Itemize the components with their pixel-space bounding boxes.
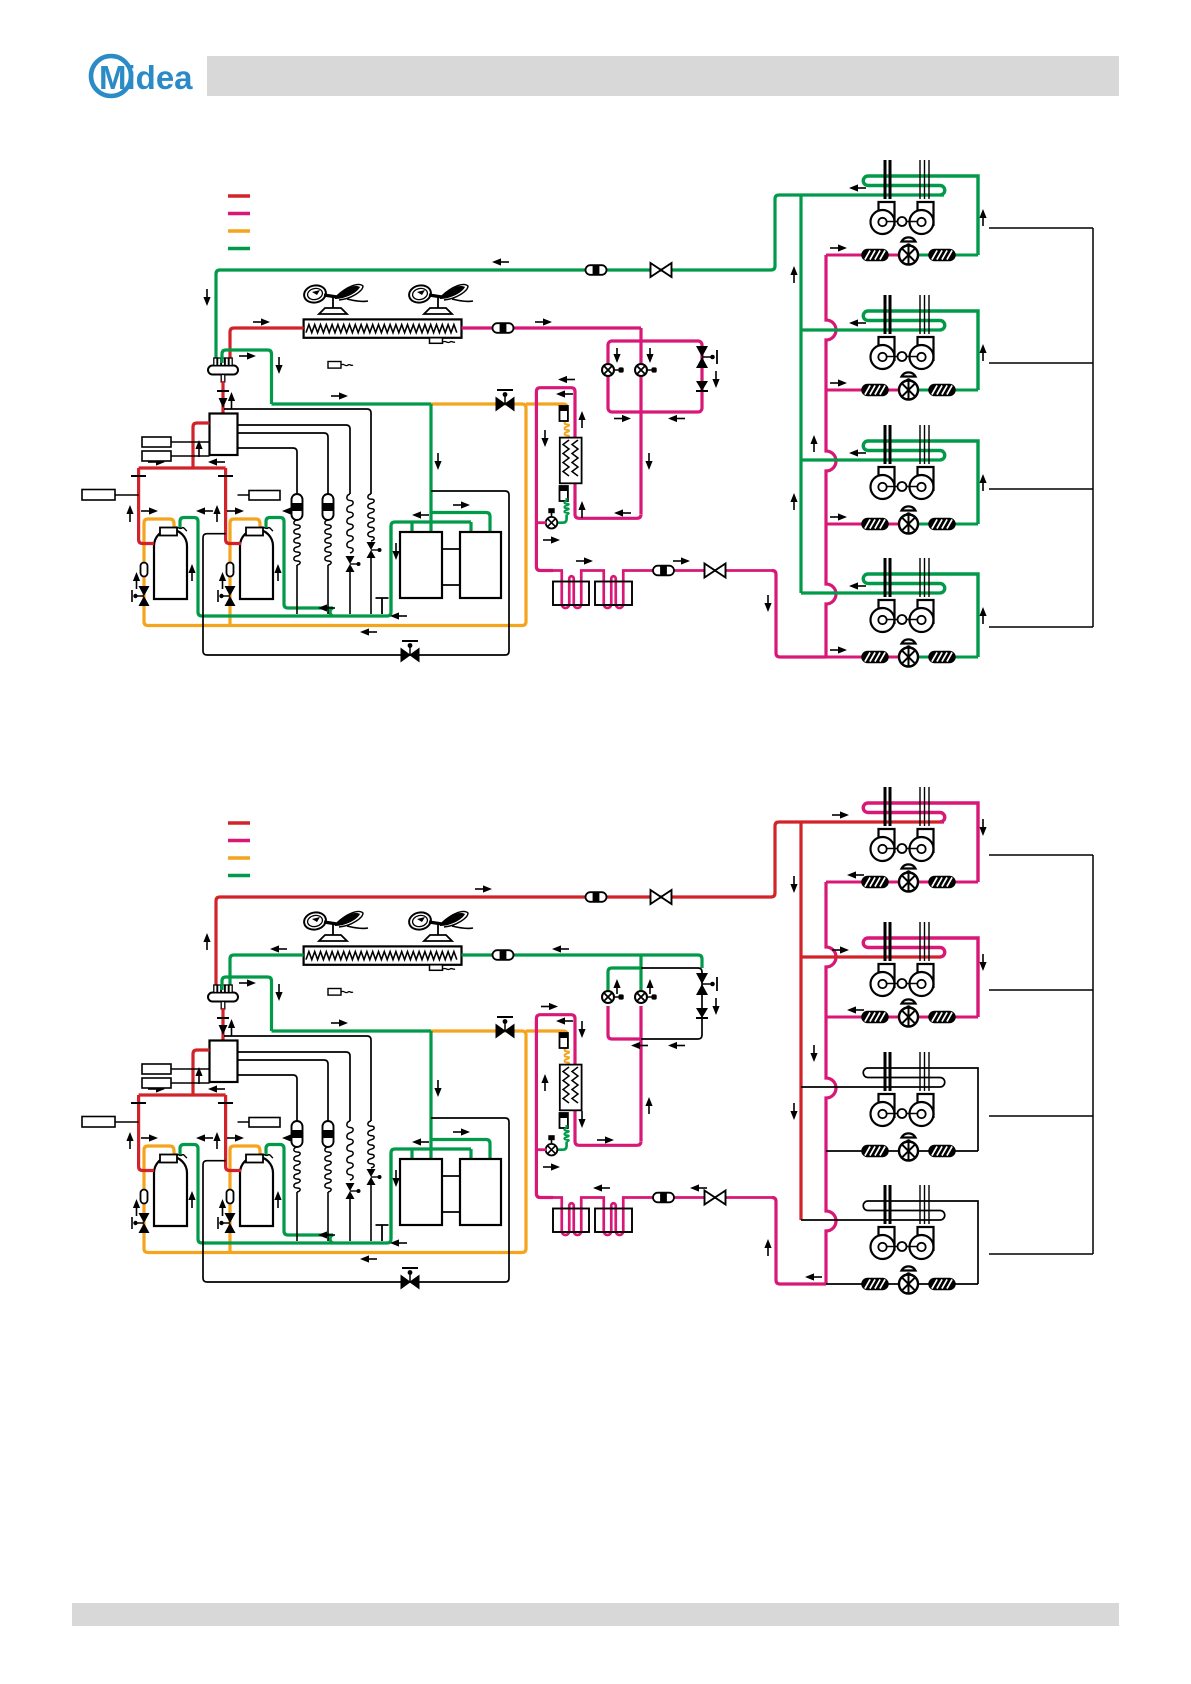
arrow header right (heating) (148, 1085, 165, 1092)
arrow coil left (cooling) (253, 318, 270, 325)
arrow subcool hat 2 (heating) (556, 1017, 573, 1024)
indoor unit 2 fan right (cooling) (910, 337, 934, 369)
four-way label box A (cooling) (142, 437, 210, 447)
footer gray bar (72, 1603, 1119, 1626)
arrow gas main (heating) (475, 885, 492, 892)
pipe: suction header green (heating) (272, 1029, 432, 1032)
legend line 1 (heating) (228, 821, 250, 825)
oil separator x328 (cooling) (323, 494, 334, 520)
arrow discharge 1 (cooling) (126, 505, 133, 522)
arrow subcool EXV out (heating) (543, 1163, 560, 1170)
pipe: outdoor coil right line (cooling) (462, 326, 642, 329)
unit 2 label bracket (heating) (989, 989, 1093, 991)
pipe: HX port 431 (heating) (429, 1149, 432, 1159)
oil separator x297 (heating) (292, 1121, 303, 1147)
pipe: orange header (cooling) (144, 404, 526, 626)
pipe: separator to four-way valve (cooling) (221, 381, 224, 414)
oil return valve bottom (cooling) (401, 641, 419, 662)
indoor unit 2 fan shaft (cooling) (886, 352, 917, 361)
orange capillary (heating) (565, 1048, 570, 1065)
oil separator drop x297 (cooling) (296, 565, 298, 614)
four-way port line 4 (cooling) (238, 448, 298, 494)
unit 2 strainer left (cooling) (862, 385, 888, 396)
unit 2 strainer left (heating) (862, 1012, 888, 1023)
outdoor EXV 2 (heating) (635, 991, 657, 1003)
indoor unit 1 fan right (cooling) (910, 202, 934, 234)
arrow liquid main 2 (cooling) (673, 557, 690, 564)
oil separator capillary x328 (heating) (325, 1147, 331, 1192)
liquid service valve (heating) (705, 1191, 726, 1205)
unit 1 strainer right (cooling) (929, 250, 955, 261)
pipe: orange branch compressor 2 (cooling) (230, 519, 260, 626)
arrow unit 2 gas branch (heating) (832, 946, 849, 953)
unit 4 EXV (heating) (899, 1266, 918, 1293)
arrow EXV2 (cooling) (646, 348, 653, 363)
arrow suction header (cooling) (331, 392, 348, 399)
arrow unit 3 riser side (cooling) (979, 474, 986, 491)
indoor unit 2 pipe set B (heating) (920, 922, 929, 961)
arrow suction bottom 2 (heating) (390, 1239, 407, 1246)
pipe: EXV left lower (heating) (608, 1006, 641, 1039)
subcooler HX (cooling) (560, 438, 582, 484)
sensor tag (cooling) (328, 362, 353, 369)
unit 3 strainer left (cooling) (862, 519, 888, 530)
arrow liquid feed (heating) (764, 1239, 771, 1256)
arrow suction bottom 2 (cooling) (390, 612, 407, 619)
pipe: orange subcooler branch (cooling) (526, 404, 567, 421)
arrow unit 2 liquid (heating) (847, 1006, 864, 1013)
temp sensor T (cooling) (376, 598, 389, 614)
pipe: subcooler lower leg (cooling) (575, 483, 641, 518)
unit 1 EXV (heating) (899, 864, 918, 891)
indoor unit 4 pipe set B (cooling) (920, 558, 929, 597)
indoor unit 2 pipe set A (cooling) (885, 295, 890, 334)
indoor unit 2 fan left (heating) (871, 964, 895, 996)
pipe: indoor unit 3 gas branch (cooling) (801, 458, 940, 461)
pipe: subcooler green out (heating) (565, 1125, 567, 1128)
arrow separator elbow (heating) (239, 979, 256, 986)
indoor unit 4 fan left (cooling) (871, 600, 895, 632)
pipe: discharge header (heating) (139, 1093, 226, 1096)
pipe: indoor unit 3 coil (cooling) (863, 441, 978, 524)
HX frame (heating) (203, 1118, 509, 1282)
arrow suction out 2 (cooling) (282, 507, 299, 514)
arrow oil riser 2 (cooling) (219, 572, 226, 589)
pipe: unit 3 liquid right (cooling) (918, 523, 978, 526)
pipe: gas riser (heating) (799, 822, 802, 1220)
indoor unit 1 pipe set A (heating) (885, 787, 890, 826)
suction drop x350 (cooling) (349, 572, 351, 614)
pipe: gas main line (cooling) (216, 195, 944, 361)
pipe: separator elbow (heating) (222, 977, 272, 1031)
suction spring x350 (heating) (347, 1121, 353, 1180)
outdoor EXV 1 (heating) (602, 991, 624, 1003)
indoor unit 2 fan shaft (heating) (886, 979, 917, 988)
indoor unit 4 fan left (heating) (871, 1227, 895, 1259)
pipe: suction U compressor 2 (cooling) (266, 518, 333, 617)
pipe: HX port 412 (cooling) (410, 522, 413, 532)
unit 3 label bracket (cooling) (989, 488, 1093, 490)
indoor unit 4 pipe set A (cooling) (885, 558, 890, 597)
oil separator capillary x297 (cooling) (294, 520, 300, 565)
heater box 2 (heating) (595, 1209, 632, 1233)
pipe: suction U compressor 2 (heating) (266, 1145, 333, 1244)
pipe: subcooler to EXV (heating) (558, 1142, 567, 1150)
four-way port line 2 (heating) (238, 1052, 351, 1121)
suction spring x371 (heating) (368, 1121, 374, 1168)
compressor label box 1 (cooling) (82, 490, 139, 501)
oil sight glass 1 (heating) (141, 1190, 148, 1204)
four-way port line 1 (cooling) (224, 409, 371, 494)
indoor group frame line (cooling) (1092, 228, 1094, 627)
arrow subcool hat 1 (cooling) (558, 376, 575, 383)
pipe: liquid feed corner (heating) (772, 1198, 826, 1285)
arrow HX manifold (heating) (412, 1138, 429, 1145)
plate HX links (cooling) (442, 549, 460, 585)
pipe: suction U compressor 1 (cooling) (180, 518, 391, 617)
indoor unit 1 fan left (heating) (871, 829, 895, 861)
oil sight glass 1 (cooling) (141, 563, 148, 577)
arrow liquid main 1 (cooling) (576, 557, 593, 564)
four-way port line 2 (cooling) (238, 425, 351, 494)
indoor unit 1 pipe set B (heating) (920, 787, 929, 826)
indoor unit 2 fan left (cooling) (871, 337, 895, 369)
arrow unit 3 gas branch (cooling) (849, 449, 866, 456)
arrow dome side 1 (heating) (188, 1191, 195, 1208)
plate HX 2 (cooling) (460, 532, 501, 598)
separator outlet tick (heating) (217, 1018, 229, 1035)
indoor unit 4 pipe set B (heating) (920, 1185, 929, 1224)
suction valve x350 (heating) (346, 1183, 361, 1199)
oil sight glass 2 (heating) (227, 1190, 234, 1204)
arrow check leg (heating) (712, 998, 719, 1015)
plate HX links (heating) (442, 1176, 460, 1212)
oil valve on header (cooling) (496, 390, 514, 411)
arrow EXV box bottom 1 (cooling) (614, 415, 631, 422)
oil separator x328 (heating) (323, 1121, 334, 1147)
pipe: unit 2 liquid right (cooling) (918, 389, 978, 392)
subcooler sight glass bottom (heating) (560, 1113, 568, 1128)
compressor 1 (cooling) (154, 528, 187, 600)
indoor unit 1 fan right (heating) (910, 829, 934, 861)
liquid main filter (heating) (653, 1193, 674, 1203)
pipe: outdoor coil right line (heating) (462, 955, 703, 968)
legend line 2 (cooling) (228, 212, 250, 216)
arrow header left (cooling) (208, 458, 225, 465)
four-way port line 4 (heating) (238, 1075, 298, 1121)
outdoor EXV 1 (cooling) (602, 364, 624, 376)
suction drop x371 (cooling) (370, 558, 372, 614)
pipe: indoor unit 1 coil (heating) (863, 803, 978, 882)
plate HX 1 (heating) (400, 1159, 442, 1225)
outdoor EXV 2 (cooling) (635, 364, 657, 376)
arrow liquid feed (cooling) (764, 595, 771, 612)
unit 1 EXV (cooling) (899, 237, 918, 264)
pipe: liquid riser (heating) (826, 882, 836, 1284)
pipe: separator to four-way valve (heating) (221, 1008, 224, 1041)
liquid main filter (cooling) (653, 566, 674, 576)
arrow subcool link line (heating) (597, 1136, 614, 1143)
pipe: indoor unit 4 gas branch (cooling) (801, 591, 940, 594)
outdoor fan 2 (cooling) (407, 283, 473, 314)
compressor pigtail 2 (heating) (260, 1154, 273, 1158)
compressor 2 (cooling) (240, 528, 273, 600)
sensor tag (heating) (328, 989, 353, 996)
arrow discharge 2 (heating) (213, 1132, 220, 1149)
unit 3 strainer left (heating) (862, 1146, 888, 1157)
outdoor coil (cooling) (304, 319, 462, 343)
arrow HX upper (heating) (453, 1128, 470, 1135)
indoor unit 1 fan shaft (heating) (886, 844, 917, 853)
arrow unit 2 liquid (cooling) (830, 379, 847, 386)
pipe: unit 4 liquid left (heating) (826, 1283, 899, 1285)
indoor group frame line (heating) (1092, 855, 1094, 1254)
arrow coil right (heating) (552, 945, 569, 952)
subcooler green capillary (heating) (564, 1128, 569, 1142)
legend line 4 (heating) (228, 874, 250, 878)
pipe: four-way left port (cooling) (193, 423, 210, 468)
subcooler sight glass top (heating) (560, 1033, 568, 1048)
arrow liquid main 1 (heating) (593, 1184, 610, 1191)
pipe: subcooler green out (cooling) (565, 498, 567, 501)
pipe: indoor unit 3 coil (heating) (863, 1068, 978, 1151)
gas main filter (cooling) (586, 265, 607, 275)
arrow suction in 2 (cooling) (227, 507, 244, 514)
arrow EXV box bottom 2 (heating) (668, 1042, 685, 1049)
arrow unit 1 liquid (heating) (847, 871, 864, 878)
subcooler EXV (cooling) (546, 508, 558, 528)
compressor label box 2 (heating) (238, 1118, 281, 1128)
arrow gas riser (cooling) (790, 493, 797, 510)
oil drain valve 2 (cooling) (218, 586, 236, 606)
pipe: HX port 431 (cooling) (429, 522, 432, 532)
pipe: indoor unit 4 coil (heating) (863, 1201, 978, 1284)
arrow liquid riser (heating) (810, 1045, 817, 1062)
four-way port line 3 (cooling) (238, 433, 329, 494)
indoor unit 4 pipe set A (heating) (885, 1185, 890, 1224)
unit 3 strainer right (cooling) (929, 519, 955, 530)
pipe: orange branch compressor 2 (heating) (230, 1146, 260, 1253)
oil drain valve 2 (heating) (218, 1213, 236, 1233)
compressor 2 (heating) (240, 1155, 273, 1227)
temp sensor T (heating) (376, 1225, 389, 1241)
arrow subcool link line (cooling) (614, 509, 631, 516)
heater box 1 (cooling) (553, 582, 589, 606)
arrow dome side 1 (cooling) (188, 564, 195, 581)
oil separator capillary x297 (heating) (294, 1147, 300, 1192)
arrow subcool left leg (heating) (541, 1074, 548, 1091)
orange capillary (cooling) (565, 421, 570, 438)
arrow liquid return (heating) (805, 1273, 822, 1280)
arrow gas drop (cooling) (203, 289, 210, 306)
pipe: four-way left port (heating) (193, 1050, 210, 1095)
arrow unit 1 liquid (cooling) (830, 244, 847, 251)
arrow unit 4 liquid (cooling) (830, 646, 847, 653)
oil separator drop x297 (heating) (296, 1192, 298, 1241)
subcooler EXV (heating) (546, 1135, 558, 1155)
unit 4 strainer left (heating) (862, 1279, 888, 1290)
indoor unit 3 pipe set A (heating) (885, 1052, 890, 1091)
indoor unit 4 fan right (cooling) (910, 600, 934, 632)
compressor pigtail 1 (cooling) (174, 527, 187, 531)
discharge tick 2 (heating) (218, 1102, 233, 1104)
discharge tick 2 (cooling) (218, 475, 233, 477)
gas main service valve (heating) (651, 890, 672, 904)
pipe: indoor unit 2 coil (heating) (863, 938, 978, 1017)
compressor label box 1 (heating) (82, 1117, 139, 1128)
unit 2 strainer right (heating) (929, 1012, 955, 1023)
indoor unit 1 fan left (cooling) (871, 202, 895, 234)
arrow four-way port (cooling) (195, 440, 202, 457)
unit 4 strainer right (cooling) (929, 652, 955, 663)
pipe: EXV mid line (cooling) (639, 328, 642, 514)
separator outlet tick (cooling) (217, 391, 229, 408)
pipe: suction header green (cooling) (272, 402, 432, 405)
unit 2 label bracket (cooling) (989, 362, 1093, 364)
heater box 2 (cooling) (595, 582, 632, 606)
pipe: gas riser (cooling) (799, 195, 802, 593)
check valve bottom (cooling) (696, 381, 708, 391)
legend line 4 (cooling) (228, 247, 250, 251)
indoor unit 4 fan shaft (heating) (886, 1242, 917, 1251)
arrow suction bottom 1 (heating) (318, 1231, 335, 1238)
arrow unit 1 riser side (cooling) (979, 209, 986, 226)
pipe: unit 1 liquid left (heating) (826, 881, 899, 884)
indoor unit 1 fan shaft (cooling) (886, 217, 917, 226)
pipe: subcooler hat (cooling) (536, 388, 575, 571)
pipe: unit 3 liquid right (heating) (918, 1150, 978, 1152)
pipe: discharge riser 1 (heating) (139, 1095, 154, 1171)
arrow EXV box bottom 1 (heating) (631, 1042, 648, 1049)
arrow four-way feed (heating) (228, 1019, 235, 1036)
arrow unit 4 gas branch (cooling) (849, 582, 866, 589)
unit 1 label bracket (cooling) (989, 227, 1093, 229)
arrow check leg (cooling) (712, 371, 719, 388)
oil valve on header (heating) (496, 1017, 514, 1038)
arrow unit 2 gas branch (cooling) (849, 319, 866, 326)
pipe: indoor unit 2 gas branch (heating) (801, 955, 940, 958)
indoor unit 1 pipe set A (cooling) (885, 160, 890, 199)
indoor unit 2 pipe set B (cooling) (920, 295, 929, 334)
arrow oil riser 1 (heating) (133, 1199, 140, 1216)
pipe: unit 2 liquid right (heating) (918, 1016, 978, 1019)
outdoor fan 1 (cooling) (302, 283, 368, 314)
arrow suction in 1 (cooling) (141, 507, 158, 514)
arrow subcool right leg 2 (cooling) (578, 501, 585, 518)
outdoor coil (heating) (304, 946, 462, 970)
compressor pigtail 2 (cooling) (260, 527, 273, 531)
pipe: liquid main with heater loops (heating) (538, 1198, 772, 1236)
liquid service valve (cooling) (705, 564, 726, 578)
pipe: HX feed drop green (cooling) (429, 404, 432, 523)
pipe: outdoor coil left line (heating) (230, 955, 304, 988)
pipe: indoor unit 4 coil (cooling) (863, 574, 978, 657)
coil line filter (heating) (493, 950, 514, 960)
pipe: unit 3 liquid left (cooling) (826, 523, 899, 526)
pipe: discharge header (cooling) (139, 466, 226, 469)
unit 1 strainer right (heating) (929, 877, 955, 888)
pipe: subcool EXV link (heating) (536, 1148, 546, 1151)
arrow suction out 2 (heating) (282, 1134, 299, 1141)
gas-liquid separator header (cooling) (208, 358, 238, 382)
arrow subcool right leg 1 (cooling) (578, 411, 585, 428)
compressor pigtail 1 (heating) (174, 1154, 187, 1158)
suction valve x350 (cooling) (346, 556, 361, 572)
indoor unit 2 pipe set A (heating) (885, 922, 890, 961)
arrow dome side 2 (cooling) (274, 564, 281, 581)
pipe: HX upper port line (cooling) (431, 513, 490, 533)
arrow discharge 1 (heating) (126, 1132, 133, 1149)
pipe: HX feed drop green (heating) (429, 1031, 432, 1150)
indoor unit 3 fan right (heating) (910, 1094, 934, 1126)
arrow subcool left leg (cooling) (541, 430, 548, 447)
pipe: unit 4 liquid right (cooling) (918, 656, 978, 659)
indoor unit 3 fan right (cooling) (910, 467, 934, 499)
pipe: EXV mid upper green (heating) (639, 955, 642, 991)
arrow suction out 1 (heating) (196, 1134, 213, 1141)
arrow liquid riser (cooling) (810, 435, 817, 452)
pipe: liquid riser (cooling) (826, 255, 836, 657)
subcooler sight glass bottom (cooling) (560, 486, 568, 501)
arrow EXV2 (heating) (646, 979, 653, 994)
arrow oil riser 2 (heating) (219, 1199, 226, 1216)
pipe: EXV box black part (heating) (641, 968, 702, 1039)
arrow unit 1 gas branch (heating) (832, 811, 849, 818)
arrow gas main (cooling) (492, 258, 509, 265)
arrow EXV box bottom 2 (cooling) (668, 415, 685, 422)
arrow HX upper (cooling) (453, 501, 470, 508)
heater box 1 (heating) (553, 1209, 589, 1233)
discharge tick 1 (cooling) (131, 475, 146, 477)
indoor unit 4 fan right (heating) (910, 1227, 934, 1259)
unit 1 strainer left (heating) (862, 877, 888, 888)
indoor unit 3 fan shaft (cooling) (886, 482, 917, 491)
arrow suction in 1 (heating) (141, 1134, 158, 1141)
arrow separator elbow (cooling) (239, 352, 256, 359)
unit 4 label bracket (heating) (989, 1253, 1093, 1255)
outdoor fan 2 (heating) (407, 910, 473, 941)
pipe: discharge riser 2 (heating) (226, 1095, 241, 1171)
arrow EXV1 (cooling) (613, 348, 620, 363)
oil separator capillary x328 (cooling) (325, 520, 331, 565)
indoor unit 3 pipe set B (cooling) (920, 425, 929, 464)
pipe: subcooler to EXV (cooling) (558, 515, 567, 523)
pipe: unit 3 liquid left (heating) (826, 1150, 899, 1152)
arrow coil right (cooling) (535, 318, 552, 325)
pipe: indoor unit 2 coil (cooling) (863, 311, 978, 390)
arrow header right (cooling) (148, 458, 165, 465)
arrow oil riser 1 (cooling) (133, 572, 140, 589)
check valve bottom (heating) (696, 1008, 708, 1018)
indoor unit 3 pipe set A (cooling) (885, 425, 890, 464)
compressor label box 2 (cooling) (238, 491, 281, 501)
pipe: indoor unit 1 coil (cooling) (863, 176, 978, 255)
check valve top (cooling) (696, 346, 717, 368)
arrow EXV mid (cooling) (645, 453, 652, 470)
coil line filter (cooling) (493, 323, 514, 333)
pipe: discharge riser 1 (cooling) (139, 468, 154, 544)
arrow four-way port (heating) (195, 1067, 202, 1084)
arrow elbow drop (cooling) (275, 357, 282, 374)
pipe: subcooler lower leg (heating) (575, 1110, 641, 1145)
arrow gas riser (heating) (790, 876, 797, 893)
pipe: EXV box loop (cooling) (608, 341, 702, 412)
arrow subcool hat 1 (heating) (541, 1003, 558, 1010)
four-way label box B (heating) (142, 1078, 210, 1088)
arrow unit 2 riser side (cooling) (979, 344, 986, 361)
unit 3 label bracket (heating) (989, 1115, 1093, 1117)
indoor unit 3 fan shaft (heating) (886, 1109, 917, 1118)
